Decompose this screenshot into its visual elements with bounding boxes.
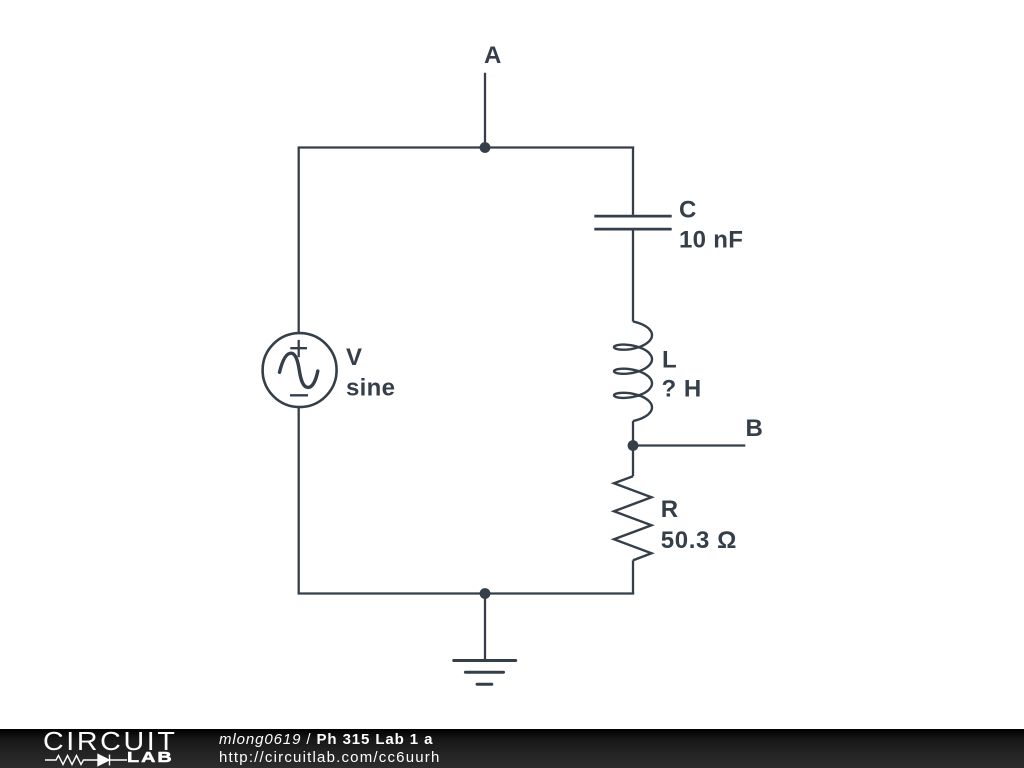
voltage source V circle — [263, 333, 337, 407]
resistor R zigzag — [614, 476, 652, 560]
ground bar 1 — [454, 659, 516, 662]
inductor L coil — [614, 322, 652, 422]
wire bottom rail — [298, 592, 635, 594]
voltage source sine wave — [280, 353, 318, 387]
footer url line — [219, 749, 441, 766]
svg-text:10 nF: 10 nF — [679, 227, 743, 254]
node A junction dot — [480, 142, 491, 153]
voltage source minus sign — [290, 394, 308, 396]
svg-text:V: V — [346, 344, 362, 371]
wire node B horizontal — [633, 444, 745, 446]
footer bar — [0, 729, 1024, 768]
svg-text:50.3 Ω: 50.3 Ω — [661, 527, 737, 554]
wire capacitor to inductor — [632, 230, 634, 321]
wire top rail — [298, 146, 635, 148]
voltage source plus sign — [290, 340, 307, 357]
node B junction dot — [628, 440, 639, 451]
svg-text:C: C — [679, 197, 696, 224]
capacitor C plates — [594, 216, 671, 229]
CircuitLab logo resistor-diode wire — [43, 753, 133, 767]
svg-text:? H: ? H — [662, 375, 702, 402]
svg-text:sine: sine — [346, 375, 395, 402]
ground bar 2 — [465, 671, 503, 674]
ground junction dot — [480, 588, 491, 599]
ground bar 3 — [477, 683, 492, 686]
wire left rail lower — [298, 407, 300, 594]
wire left rail upper — [298, 148, 300, 335]
svg-text:A: A — [484, 42, 501, 69]
CircuitLab logo CIRCUIT text — [43, 726, 177, 757]
svg-text:L: L — [662, 347, 677, 374]
wire resistor to bottom rail — [632, 560, 634, 593]
CircuitLab logo LAB text — [127, 749, 174, 766]
ground stem — [484, 594, 486, 661]
wire node A stem — [484, 73, 486, 148]
wire inductor to node B — [632, 421, 634, 476]
svg-text:B: B — [746, 415, 763, 442]
footer title line — [219, 731, 433, 748]
wire right rail to capacitor — [632, 148, 634, 215]
svg-text:R: R — [661, 496, 678, 523]
